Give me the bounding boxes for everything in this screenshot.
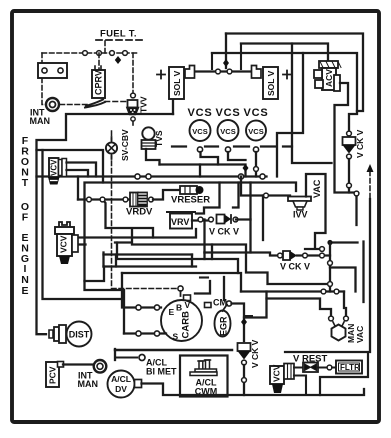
wire y273 long xyxy=(122,273,241,292)
wire VCV1 out 1 xyxy=(67,163,97,177)
carburetor CARB xyxy=(161,300,202,342)
wire dashed fuel bus xyxy=(42,52,137,54)
svg-text:TVV: TVV xyxy=(139,96,149,113)
wire EGR feed xyxy=(244,299,267,318)
svg-text:VCS: VCS xyxy=(243,107,268,119)
check valve V CK V vertical right xyxy=(343,129,366,159)
wire dashed underline under FUEL T. xyxy=(96,39,143,41)
node on ivv feed xyxy=(264,193,269,198)
wire main top-left bus to left rail down to DIST xyxy=(37,114,174,334)
label FUEL T. xyxy=(100,29,137,40)
wire dashed to CPRV top xyxy=(98,53,100,69)
svg-text:IVV: IVV xyxy=(293,210,308,220)
vacuum control valve VCV 3 xyxy=(270,364,294,394)
svg-text:VRV: VRV xyxy=(171,217,189,227)
dashed arrow rail x370 xyxy=(369,171,371,199)
junction diamond xyxy=(241,318,247,326)
wire ACV right out xyxy=(335,83,358,193)
node xyxy=(242,378,247,383)
svg-text:BI MET: BI MET xyxy=(146,367,177,377)
node xyxy=(216,69,221,74)
svg-text:VCS: VCS xyxy=(220,127,235,136)
node on fuel bus xyxy=(83,51,88,56)
wire carb B feed xyxy=(43,150,162,308)
svg-text:VCS: VCS xyxy=(215,107,240,119)
wire branch x292 down xyxy=(292,44,332,164)
node on fuel bus xyxy=(110,51,115,56)
wire top bus y33 xyxy=(226,34,363,112)
svg-text:E: E xyxy=(169,307,175,317)
node xyxy=(154,331,159,336)
label CM and node xyxy=(213,298,232,308)
EGR valve xyxy=(215,305,231,337)
wire stubs y146 xyxy=(172,145,292,147)
thermal vacuum switch TVS xyxy=(142,127,165,149)
node bus B xyxy=(238,174,243,179)
node xyxy=(100,197,105,202)
svg-text:PCV: PCV xyxy=(48,366,58,384)
wire y259 long xyxy=(117,243,238,274)
wire bus3 y182 + x84 long drop xyxy=(85,183,297,334)
PCV valve xyxy=(46,362,64,388)
junction dot xyxy=(327,240,332,245)
wire CM to check valve 3 xyxy=(232,304,245,342)
wire dashed to bracket xyxy=(41,53,43,63)
wire bus y244 VCV2 out2 xyxy=(76,243,86,245)
wire drop x204 xyxy=(203,220,205,253)
vacuum regulator valve VRV xyxy=(167,212,195,229)
wire VRDV to VRESER xyxy=(153,190,180,200)
wire from check valve right xyxy=(236,220,251,253)
wire connector x212 xyxy=(211,245,213,260)
junction diamond below fuel bus xyxy=(115,56,121,64)
svg-text:VRDV: VRDV xyxy=(126,207,153,218)
wire bus y238 VCV2 out1 xyxy=(76,229,196,238)
VCS port 3 xyxy=(246,121,266,177)
filter FLTR xyxy=(336,361,362,374)
wire carb S feed xyxy=(124,332,166,334)
node xyxy=(123,197,128,202)
vacuum control valve VCV 2 xyxy=(55,222,78,264)
wire dashed stub from FUEL T. xyxy=(104,41,106,53)
INT MAN port (torus) xyxy=(46,98,59,111)
wire bus y244 long xyxy=(115,229,330,284)
wire connector x200 xyxy=(199,165,201,177)
VCS port 2 xyxy=(218,120,246,160)
wire VCV3 lower out xyxy=(294,376,306,396)
bracket plate xyxy=(38,63,67,78)
svg-text:VAC: VAC xyxy=(355,326,365,343)
junction diamond on x245 drop xyxy=(243,164,249,172)
node BI MET xyxy=(139,355,145,361)
node bus B xyxy=(146,174,151,179)
vacuum control valve VCV 1 xyxy=(48,158,67,185)
node xyxy=(136,305,141,310)
wire bus up into SOL V 1 xyxy=(172,99,174,114)
svg-text:VCS: VCS xyxy=(248,127,263,136)
wire drop x223 xyxy=(225,34,227,69)
wire dashed bracket to INT MAN xyxy=(42,78,46,105)
solenoid valve SOL V 1 xyxy=(157,66,195,100)
distributor DIST xyxy=(49,322,92,347)
svg-text:V CK V: V CK V xyxy=(280,262,310,272)
canister purge valve CPRV xyxy=(85,66,130,108)
svg-text:V CK V: V CK V xyxy=(250,339,260,368)
svg-text:SOL V: SOL V xyxy=(266,70,276,96)
wire VRDV row y199 xyxy=(78,198,130,200)
labels VCS row xyxy=(187,107,268,119)
svg-text:TVS: TVS xyxy=(154,130,164,147)
wire bus y252 to check valve 2 xyxy=(205,253,278,256)
svg-text:MAN: MAN xyxy=(78,379,99,389)
node bus B end xyxy=(260,174,265,179)
check valve V CK V horizontal 1 xyxy=(209,215,239,237)
wire vertical x250 xyxy=(249,183,251,220)
wire rail x370 xyxy=(369,199,371,352)
label A/CL BI MET xyxy=(146,358,177,377)
wire VCV1 out 2 xyxy=(67,170,89,177)
air cleaner housing top xyxy=(115,349,232,352)
label INT MAN 2 xyxy=(78,371,99,390)
node xyxy=(198,217,203,222)
wire between solenoids xyxy=(196,70,250,72)
svg-text:FUEL T.: FUEL T. xyxy=(100,29,137,40)
node xyxy=(154,305,159,310)
junction diamond xyxy=(223,59,229,67)
wire VRV out xyxy=(192,219,210,221)
wire check valve down chain xyxy=(348,159,350,183)
idle vacuum valve IVV xyxy=(288,197,311,220)
wire stub y277 xyxy=(200,276,208,278)
wire branch x303 down to bus3 xyxy=(277,53,303,177)
label INT MAN xyxy=(30,108,51,127)
svg-text:V: V xyxy=(185,300,191,310)
wire check valve 3 down xyxy=(243,365,245,395)
solenoid valve SOL V 2 xyxy=(252,66,292,100)
svg-text:T: T xyxy=(22,177,29,189)
wire IVV feed from node 241 xyxy=(241,177,290,196)
wire check valve 2 out right xyxy=(297,254,330,256)
vacuum retard delay valve VRDV xyxy=(126,193,153,218)
node xyxy=(87,197,92,202)
wire bracket y53 right chain xyxy=(212,53,357,131)
node xyxy=(320,247,325,252)
wire to right rail xyxy=(330,188,364,302)
node MAN VAC left xyxy=(329,316,334,321)
wire TVS stem to bus xyxy=(146,149,160,165)
node xyxy=(328,282,333,287)
svg-text:S: S xyxy=(173,332,179,342)
check valve bowtie V REST xyxy=(294,363,336,373)
svg-text:SV-CBV: SV-CBV xyxy=(120,129,130,161)
air cleaner diaphragm valve A/CL DV xyxy=(108,371,142,398)
wire MAN VAC right feed xyxy=(344,292,346,317)
wire dashed to TVV xyxy=(132,53,134,92)
wire mid bus y164 xyxy=(160,165,246,177)
wire bus y254 xyxy=(104,253,193,255)
node on fuel bus xyxy=(123,51,128,56)
svg-text:CPRV: CPRV xyxy=(94,70,104,95)
svg-text:DV: DV xyxy=(115,384,127,394)
wire connector xyxy=(116,255,192,267)
wire vertical x224 xyxy=(223,277,225,300)
VCS port 1 xyxy=(190,120,219,165)
svg-text:VCV: VCV xyxy=(59,235,69,253)
wire dashed INT MAN to CPRV foot xyxy=(60,104,88,106)
check valve V CK V vertical 3 xyxy=(238,339,261,368)
node xyxy=(303,253,308,258)
svg-text:VCS: VCS xyxy=(187,107,212,119)
svg-text:CARB: CARB xyxy=(181,311,192,339)
svg-text:V CK V: V CK V xyxy=(209,227,239,237)
node xyxy=(328,261,333,266)
wire BI MET stub xyxy=(115,357,137,359)
svg-text:VCS: VCS xyxy=(192,127,207,136)
wire x78 drop xyxy=(77,177,79,200)
wire connector x103 xyxy=(102,253,104,267)
wire VRESER to VRV link xyxy=(196,183,220,214)
node xyxy=(320,253,325,258)
wire VRV feed staircase xyxy=(103,200,153,238)
node xyxy=(321,289,326,294)
svg-text:A/CL: A/CL xyxy=(111,374,131,384)
svg-text:VAC: VAC xyxy=(312,179,322,198)
manifold vacuum MAN VAC (hexagon) xyxy=(332,322,366,343)
node bus B xyxy=(135,174,140,179)
wire PCV to INT MAN xyxy=(63,363,94,365)
svg-text:VCV: VCV xyxy=(272,364,282,382)
svg-text:E: E xyxy=(21,285,28,297)
node end of dashed at carb V xyxy=(178,286,183,291)
check valve V CK V horizontal 2 xyxy=(278,251,310,272)
wire main bus B y176 xyxy=(37,175,267,177)
node right of VRDV xyxy=(149,197,154,202)
node xyxy=(136,331,141,336)
wire stub x238 xyxy=(233,183,239,208)
air control valve ACV xyxy=(314,61,341,91)
wire vertical x263 xyxy=(262,196,264,241)
svg-text:V CK V: V CK V xyxy=(355,129,365,158)
wire corner x210 xyxy=(195,281,210,294)
svg-text:VCV: VCV xyxy=(50,159,59,176)
vacuum check valve SV-CBV (dashed circuit) xyxy=(112,131,178,289)
svg-text:SOL V: SOL V xyxy=(172,70,182,96)
wire MAN VAC left chain xyxy=(267,292,332,317)
wire VAC loop xyxy=(306,174,326,247)
vacuum reservoir VRESER xyxy=(171,186,210,206)
svg-text:ACV: ACV xyxy=(324,69,334,87)
INT MAN port 2 (torus) xyxy=(94,360,107,373)
wire A/CL DV to bottom bus xyxy=(142,384,365,396)
wire stub x244 right xyxy=(244,315,252,317)
label FRONT OF ENGINE (vertical) xyxy=(21,135,29,297)
svg-text:MAN: MAN xyxy=(30,116,51,126)
wire branch y150 xyxy=(37,150,104,183)
wire bus y43 to ACV xyxy=(241,44,328,61)
wire bus y266 xyxy=(104,265,197,267)
wire bus y291 xyxy=(241,290,344,292)
wire connector x204 xyxy=(203,253,205,260)
wire stub y249 xyxy=(305,248,319,250)
svg-text:FLTR: FLTR xyxy=(340,363,360,372)
thermal vent valve TVV xyxy=(127,93,149,125)
wire x330 down xyxy=(329,243,331,292)
node xyxy=(227,69,232,74)
node on fuel bus xyxy=(97,51,102,56)
node xyxy=(347,183,352,188)
clamp stubs xyxy=(212,44,241,70)
node MAN VAC right xyxy=(344,316,349,321)
node at rail junction xyxy=(354,191,359,196)
svg-text:DIST: DIST xyxy=(69,330,90,340)
svg-text:EGR: EGR xyxy=(219,316,229,336)
V REST enclosure xyxy=(285,352,368,395)
svg-text:VRESER: VRESER xyxy=(171,195,210,206)
svg-text:B: B xyxy=(176,303,182,313)
node xyxy=(334,289,339,294)
wire y243 xyxy=(330,241,358,243)
svg-text:F: F xyxy=(22,212,29,224)
wire S-port riser link xyxy=(85,267,105,282)
air cleaner cold weather modulator A/CL CWM xyxy=(180,356,228,397)
